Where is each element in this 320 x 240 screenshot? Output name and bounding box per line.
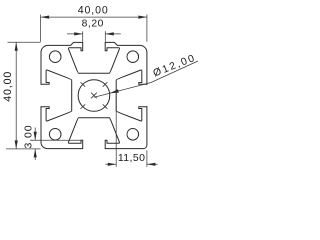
svg-text:40,00: 40,00 xyxy=(2,71,14,102)
leader line d12 xyxy=(94,61,198,97)
dim 11,50 line xyxy=(105,163,157,165)
centerline marks xyxy=(81,82,108,109)
dim 40,00 left ext lines xyxy=(6,42,40,149)
svg-text:8,20: 8,20 xyxy=(82,18,104,29)
dim 8,20 arrows xyxy=(74,32,114,35)
svg-text:11,50: 11,50 xyxy=(118,152,146,164)
dim 40,00 left line xyxy=(15,42,17,149)
corner hole 2 xyxy=(127,51,139,63)
profile outer contour xyxy=(41,42,147,148)
corner hole 1 xyxy=(49,51,61,63)
dim 40,00 left arrows xyxy=(15,42,18,149)
svg-text:3,00: 3,00 xyxy=(22,124,34,148)
dim 40,00 top arrows xyxy=(41,16,147,19)
dim 8,20 line xyxy=(67,33,121,35)
dim 11,50 arrows xyxy=(108,163,156,166)
left T-slot cavity xyxy=(41,70,72,121)
leader arrow xyxy=(110,89,119,93)
corner hole 4 xyxy=(127,129,139,141)
svg-text:40,00: 40,00 xyxy=(78,4,109,16)
dim 3,00 ext line xyxy=(32,139,82,141)
right T-slot cavity xyxy=(116,70,147,121)
dim 8,20 ext lines xyxy=(83,31,106,42)
bottom T-slot cavity xyxy=(68,118,119,149)
dim 3,00 arrowheads xyxy=(34,132,37,158)
dim 3,00 arrow tails xyxy=(34,128,36,161)
dim 40,00 top line xyxy=(41,16,147,18)
dim 40,00 top ext lines xyxy=(41,15,147,42)
dim 11,50 ext lines xyxy=(116,96,147,167)
corner hole 3 xyxy=(49,129,61,141)
central bore xyxy=(78,80,110,112)
top T-slot cavity xyxy=(68,42,119,73)
